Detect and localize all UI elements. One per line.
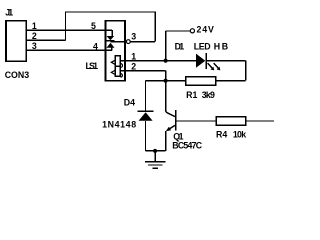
svg-text:2: 2 xyxy=(131,61,136,71)
svg-text:R1: R1 xyxy=(186,90,197,100)
svg-text:1: 1 xyxy=(32,21,37,31)
svg-text:LS1: LS1 xyxy=(86,61,99,71)
svg-text:5: 5 xyxy=(91,21,96,31)
svg-text:HB: HB xyxy=(214,41,228,51)
svg-text:J1: J1 xyxy=(5,8,13,18)
svg-text:3: 3 xyxy=(32,41,37,51)
svg-text:1: 1 xyxy=(131,51,136,61)
svg-text:1N4148: 1N4148 xyxy=(102,119,136,129)
svg-text:24V: 24V xyxy=(197,24,215,34)
svg-text:LED: LED xyxy=(194,41,211,51)
svg-text:2: 2 xyxy=(32,31,37,41)
svg-text:BC547C: BC547C xyxy=(172,141,202,151)
svg-text:3: 3 xyxy=(131,32,136,42)
svg-text:R4: R4 xyxy=(216,129,227,139)
svg-text:CON3: CON3 xyxy=(5,70,29,80)
svg-text:3k9: 3k9 xyxy=(202,90,215,100)
svg-text:10k: 10k xyxy=(233,129,246,139)
svg-text:4: 4 xyxy=(93,41,98,51)
svg-text:D4: D4 xyxy=(124,98,135,108)
svg-text:D1: D1 xyxy=(175,41,185,51)
